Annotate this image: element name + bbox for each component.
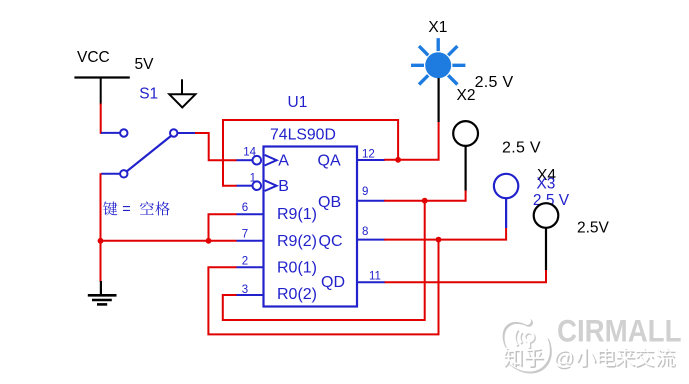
wire rail up to pin R9(1) — [209, 214, 237, 241]
svg-text:12: 12 — [362, 149, 375, 161]
pin 14 bubble — [252, 156, 261, 165]
svg-text:1: 1 — [250, 173, 256, 185]
svg-text:B: B — [278, 178, 289, 195]
watermark 知乎@小电来交流 — [503, 347, 675, 372]
svg-text:2.5 V: 2.5 V — [502, 140, 541, 157]
node junction R9 rail split — [206, 238, 212, 244]
node junction QA/feedback — [395, 157, 401, 163]
pin B clock triangle — [265, 180, 277, 191]
wire VCC to switch top terminal — [101, 104, 121, 133]
svg-text:8: 8 — [362, 226, 368, 238]
lamp X4 probe — [534, 203, 559, 270]
wire QC feedback to pin 2 R0(1) — [208, 240, 438, 335]
svg-text:VCC: VCC — [77, 49, 110, 66]
switch S1 key symbol (space bar actuator arrow) — [169, 79, 195, 107]
wire QB feedback to pin 3 R0(2) — [223, 201, 425, 320]
svg-text:5V: 5V — [135, 56, 155, 73]
svg-text:2.5V: 2.5V — [577, 220, 610, 237]
wire QA feedback to pin 1 B — [223, 120, 398, 186]
svg-text:R0(2): R0(2) — [277, 286, 317, 303]
pin A clock triangle — [265, 155, 277, 166]
watermark CIRMALL logo swirl — [499, 318, 548, 369]
wire QA to lamp X1 — [384, 122, 438, 160]
pin 11 stub (QD) — [357, 281, 385, 283]
svg-text:2.5 V: 2.5 V — [475, 74, 514, 91]
lamp X2 probe — [453, 121, 478, 190]
svg-text:9: 9 — [362, 186, 368, 198]
switch S1 blade (pole to throw) — [127, 136, 171, 171]
svg-text:A: A — [278, 152, 289, 169]
svg-text:X2: X2 — [457, 87, 476, 104]
svg-text:=: = — [122, 201, 130, 217]
wire switch throw to pin 14 A — [195, 133, 237, 160]
svg-text:S1: S1 — [139, 86, 158, 103]
svg-text:QC: QC — [319, 233, 343, 250]
lamp X1 lit probe — [411, 38, 465, 122]
pin 2 stub — [237, 266, 264, 268]
node junction QB/feedback — [422, 198, 428, 204]
switch S1 top-left terminal — [120, 129, 127, 136]
svg-text:R9(1): R9(1) — [277, 206, 317, 223]
svg-text:QA: QA — [318, 152, 341, 169]
svg-text:R9(2): R9(2) — [277, 233, 317, 250]
svg-text:11: 11 — [369, 270, 381, 282]
wire QD to lamp X4 — [385, 270, 547, 283]
wire switch pole to ground — [100, 173, 102, 282]
pin 14 stub (A clock input) — [237, 159, 253, 161]
pin 1 stub (B clock input) — [237, 185, 253, 187]
svg-text:74LS90D: 74LS90D — [270, 127, 336, 144]
svg-text:14: 14 — [243, 146, 256, 158]
pin 6 stub — [237, 213, 264, 215]
svg-text:CIRMALL: CIRMALL — [557, 313, 682, 349]
wire QB to lamp X2 — [384, 190, 465, 201]
pin 8 stub (QC) — [357, 239, 385, 241]
svg-text:X3: X3 — [536, 175, 555, 192]
pin 1 bubble — [252, 181, 261, 190]
node junction QC/feedback — [436, 237, 442, 243]
switch S1 pole stub — [101, 173, 120, 175]
pin 3 stub — [237, 294, 264, 296]
switch S1 top-right terminal — [170, 129, 177, 136]
power VCC symbol — [74, 78, 129, 105]
pin 12 stub (QA) — [357, 159, 385, 161]
svg-text:U1: U1 — [288, 94, 308, 111]
switch S1 bottom-left terminal — [120, 170, 127, 177]
svg-text:7: 7 — [242, 228, 248, 240]
op chip U1 74LS90D body — [264, 147, 358, 307]
wire rail to pin R9(2) — [101, 240, 237, 242]
svg-text:QB: QB — [318, 194, 341, 211]
svg-text:R0(1): R0(1) — [277, 259, 317, 276]
ground — [88, 281, 117, 304]
svg-text:6: 6 — [242, 202, 248, 214]
svg-text:2: 2 — [242, 255, 248, 267]
switch S1 throw stub — [177, 132, 195, 134]
svg-text:@: @ — [553, 347, 574, 370]
node junction pole/R9 rail — [98, 238, 104, 244]
lamp X3 probe — [494, 174, 518, 228]
svg-text:QD: QD — [321, 274, 345, 291]
label 键 = 空格 — [103, 201, 170, 217]
pin 9 stub (QB) — [357, 200, 385, 202]
svg-text:X1: X1 — [428, 19, 447, 36]
wire QC to lamp X3 — [384, 227, 506, 240]
pin 7 stub — [237, 240, 264, 242]
svg-text:3: 3 — [242, 284, 248, 296]
